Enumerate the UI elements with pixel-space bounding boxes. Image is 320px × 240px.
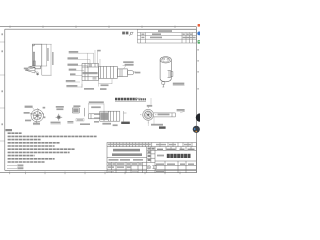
hatching bbox=[144, 111, 153, 120]
phi8 dim above with long extension bbox=[147, 105, 152, 107]
view A dimension lines bbox=[42, 44, 52, 75]
horizontal lines bbox=[107, 150, 196, 169]
cylinder caption bbox=[173, 83, 185, 85]
socket hatch / dark fills bbox=[83, 64, 98, 80]
body outline bbox=[32, 44, 41, 66]
left margin zone letters bbox=[1, 33, 3, 125]
small holes bbox=[34, 112, 36, 114]
main vertical dividers bbox=[147, 147, 191, 173]
signature lines bbox=[7, 166, 17, 169]
view A left small text ~2.5 bbox=[24, 68, 29, 70]
dims above bbox=[89, 101, 104, 108]
top notch bbox=[32, 44, 34, 46]
dims below bbox=[151, 124, 163, 126]
bottom step detail bbox=[28, 66, 40, 69]
revision table top-right bbox=[137, 29, 196, 43]
inner frame bottom border bbox=[5, 169, 197, 171]
header small cells row bbox=[107, 146, 196, 148]
socket body bbox=[82, 63, 99, 80]
sheet right border bbox=[195, 27, 197, 173]
inner frame left border bbox=[4, 29, 6, 170]
underline/leader for each stacked dim bbox=[69, 53, 94, 63]
side tab bbox=[168, 71, 171, 78]
dims below plug bbox=[82, 78, 112, 88]
tip bbox=[128, 71, 134, 75]
bottom wedge detail bbox=[25, 68, 35, 74]
blue icon bbox=[197, 32, 201, 36]
inner frame top border bbox=[5, 28, 197, 30]
scallop bumps bbox=[31, 109, 44, 123]
caption: mating figure (dark) bbox=[115, 98, 137, 101]
black circle icon bbox=[196, 113, 204, 121]
orange icon bbox=[198, 24, 200, 27]
roughness note 其余 + symbol bbox=[122, 32, 133, 36]
top zone ticks bbox=[10, 26, 175, 28]
B arrow right bbox=[124, 111, 127, 122]
sheet outer top border bbox=[0, 26, 196, 28]
barrel bbox=[117, 69, 127, 77]
middle column rows bbox=[147, 147, 155, 163]
cylinder sides bbox=[160, 60, 171, 79]
bottom-left small cells bbox=[112, 162, 143, 172]
projection symbol bbox=[147, 165, 156, 169]
dim right bbox=[177, 109, 185, 111]
revision table texts bbox=[141, 30, 195, 38]
dims above barrel bbox=[123, 61, 140, 73]
view A rotated dim texts bbox=[47, 48, 53, 65]
inner slot left bbox=[34, 52, 35, 66]
left margin zone dividers bbox=[0, 42, 5, 141]
right margin zone numerals bbox=[197, 49, 198, 90]
small holes on top bbox=[163, 58, 165, 60]
lead bar bbox=[154, 113, 176, 117]
extension lines above socket going up to stacked dims bbox=[87, 50, 100, 66]
shaft bbox=[89, 114, 100, 119]
title block texts bbox=[108, 144, 191, 146]
cross part bbox=[56, 114, 63, 121]
bottom plug bbox=[162, 82, 165, 87]
body bbox=[100, 111, 120, 121]
green icon bbox=[198, 40, 200, 43]
circular view leaders/texts bbox=[24, 106, 46, 125]
bottom zone ticks bbox=[10, 172, 180, 175]
camera lens icon bbox=[193, 126, 200, 133]
dims below bbox=[102, 123, 111, 125]
part name (dark CJK blob row) bbox=[167, 154, 191, 158]
top ellipse bbox=[160, 57, 171, 63]
plug body bbox=[99, 66, 118, 78]
sheet outer bottom border bbox=[0, 172, 196, 174]
spokes bbox=[33, 112, 41, 120]
